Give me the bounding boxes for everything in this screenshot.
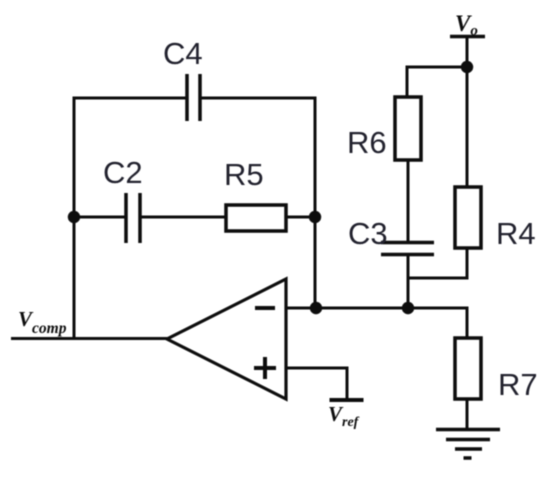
wire Vo node to R6 branch [407,67,467,98]
wire left vertical branch [73,97,76,340]
capacitor C2 [126,193,140,243]
svg-text:C4: C4 [163,36,203,71]
junction dot node D (C3 bottom node) [402,302,414,314]
wire C3 bottom to node [407,254,410,308]
wire R5 right lead [286,216,315,219]
svg-text:Vcomp: Vcomp [18,307,67,337]
op-amp minus pin mark [255,306,275,310]
wire inverting-input node horizontal [286,307,469,310]
wire Vo down to node [466,37,469,68]
wire C2 to R5 [140,216,226,219]
wire R4 bottom lead [408,248,467,278]
svg-text:C2: C2 [103,155,143,190]
svg-text:C3: C3 [348,216,388,251]
svg-text:Vo: Vo [455,11,478,39]
svg-text:R4: R4 [496,216,536,251]
wire node to R7 vertical [466,308,469,339]
junction dot node E (Vo node) [461,61,473,73]
wire top-right horizontal (C4 right lead) [200,97,317,100]
wire non-inverting input lead [286,368,347,400]
wire R7 to ground [466,399,469,430]
wire top-left horizontal (C4 left lead) [73,97,188,100]
Vref terminal bar [330,398,364,402]
junction dot node C (inverting input) [310,302,322,314]
capacitor C3 [381,243,434,255]
svg-text:R5: R5 [224,157,264,192]
resistor R5 [226,205,286,231]
svg-text:Vref: Vref [328,402,360,430]
Vo terminal bar [450,35,485,39]
resistor R7 [455,338,481,399]
junction dot node A (left C2 tap) [68,211,80,223]
svg-text:R6: R6 [347,125,387,160]
resistor R4 [455,187,481,248]
ground [436,430,500,459]
junction dot node B (R5/C4 feedback tap) [309,211,321,223]
wire right feedback vertical [314,98,317,308]
wire Vo node to R4 [466,67,469,188]
svg-text:R7: R7 [498,367,538,402]
resistor R6 [395,97,421,160]
op-amp U1 [167,279,286,399]
op-amp plus pin mark [254,357,276,379]
wire C2 left lead [74,216,126,219]
wire op-amp output (Vcomp lead) [11,337,168,340]
wire R6 to C3 [407,160,410,242]
capacitor C4 [187,74,200,121]
